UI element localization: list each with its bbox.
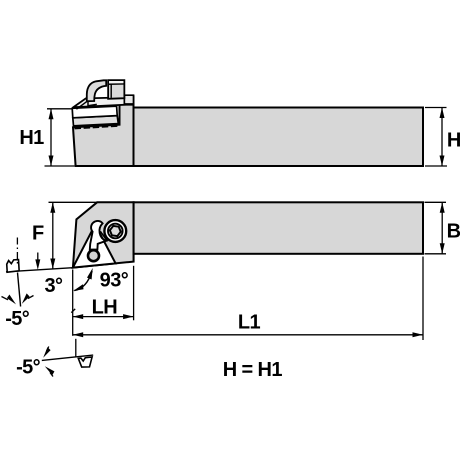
svg-text:-5°: -5° bbox=[16, 356, 41, 378]
clamp nose ring (plan view) bbox=[88, 250, 99, 261]
insert tip cross-section glyph (back rake) bbox=[7, 260, 20, 273]
shank (plan view) bbox=[134, 202, 423, 254]
dimension LH bbox=[71, 266, 133, 336]
shank (side view) bbox=[134, 108, 424, 167]
93-degree annotation arc bbox=[73, 268, 93, 291]
svg-text:B: B bbox=[447, 221, 460, 243]
svg-text:-5°: -5° bbox=[5, 308, 30, 330]
svg-text:L1: L1 bbox=[238, 312, 261, 334]
insert cross-section glyph (lower) bbox=[78, 357, 92, 367]
-5 degree tilted face line (upper) bbox=[2, 273, 34, 307]
head/shank boundary (plan) bbox=[133, 202, 135, 261]
dimension L1 bbox=[73, 257, 423, 341]
clamp body (plan view) bbox=[90, 221, 108, 250]
dimension F bbox=[49, 202, 98, 269]
svg-text:F: F bbox=[32, 222, 44, 244]
dimension H bbox=[425, 108, 447, 167]
clamp step block (side view) bbox=[124, 95, 133, 104]
clamp front plate (side view) bbox=[72, 97, 133, 108]
head body (plan view) bbox=[73, 202, 134, 267]
pocket serration line bbox=[74, 124, 120, 128]
head body (side view) bbox=[73, 105, 134, 166]
clamp screw block (side view) bbox=[108, 80, 124, 99]
3-degree annotation bbox=[6, 253, 73, 272]
insert end bevel line (side view) bbox=[76, 101, 87, 109]
dimension H1 bbox=[45, 109, 75, 166]
centerline (dash-dot) bbox=[16, 238, 18, 266]
insert (upper bar, side view) bbox=[72, 106, 117, 118]
dimension B bbox=[425, 202, 447, 254]
svg-text:H = H1: H = H1 bbox=[223, 359, 283, 381]
svg-text:LH: LH bbox=[92, 296, 118, 318]
svg-text:H: H bbox=[447, 130, 460, 152]
insert DNMG (plan view triangle) bbox=[73, 225, 116, 268]
head/shank boundary line bbox=[133, 95, 135, 166]
-5 degree annotation (lower, side rake) bbox=[42, 339, 93, 377]
clamp arm (side view) bbox=[87, 80, 106, 106]
svg-text:3°: 3° bbox=[45, 275, 64, 297]
insert shim (lower bar, side view) bbox=[73, 116, 119, 126]
svg-text:H1: H1 bbox=[19, 127, 44, 149]
clamp screw head (plan view) bbox=[104, 220, 126, 242]
svg-text:93°: 93° bbox=[100, 269, 129, 291]
